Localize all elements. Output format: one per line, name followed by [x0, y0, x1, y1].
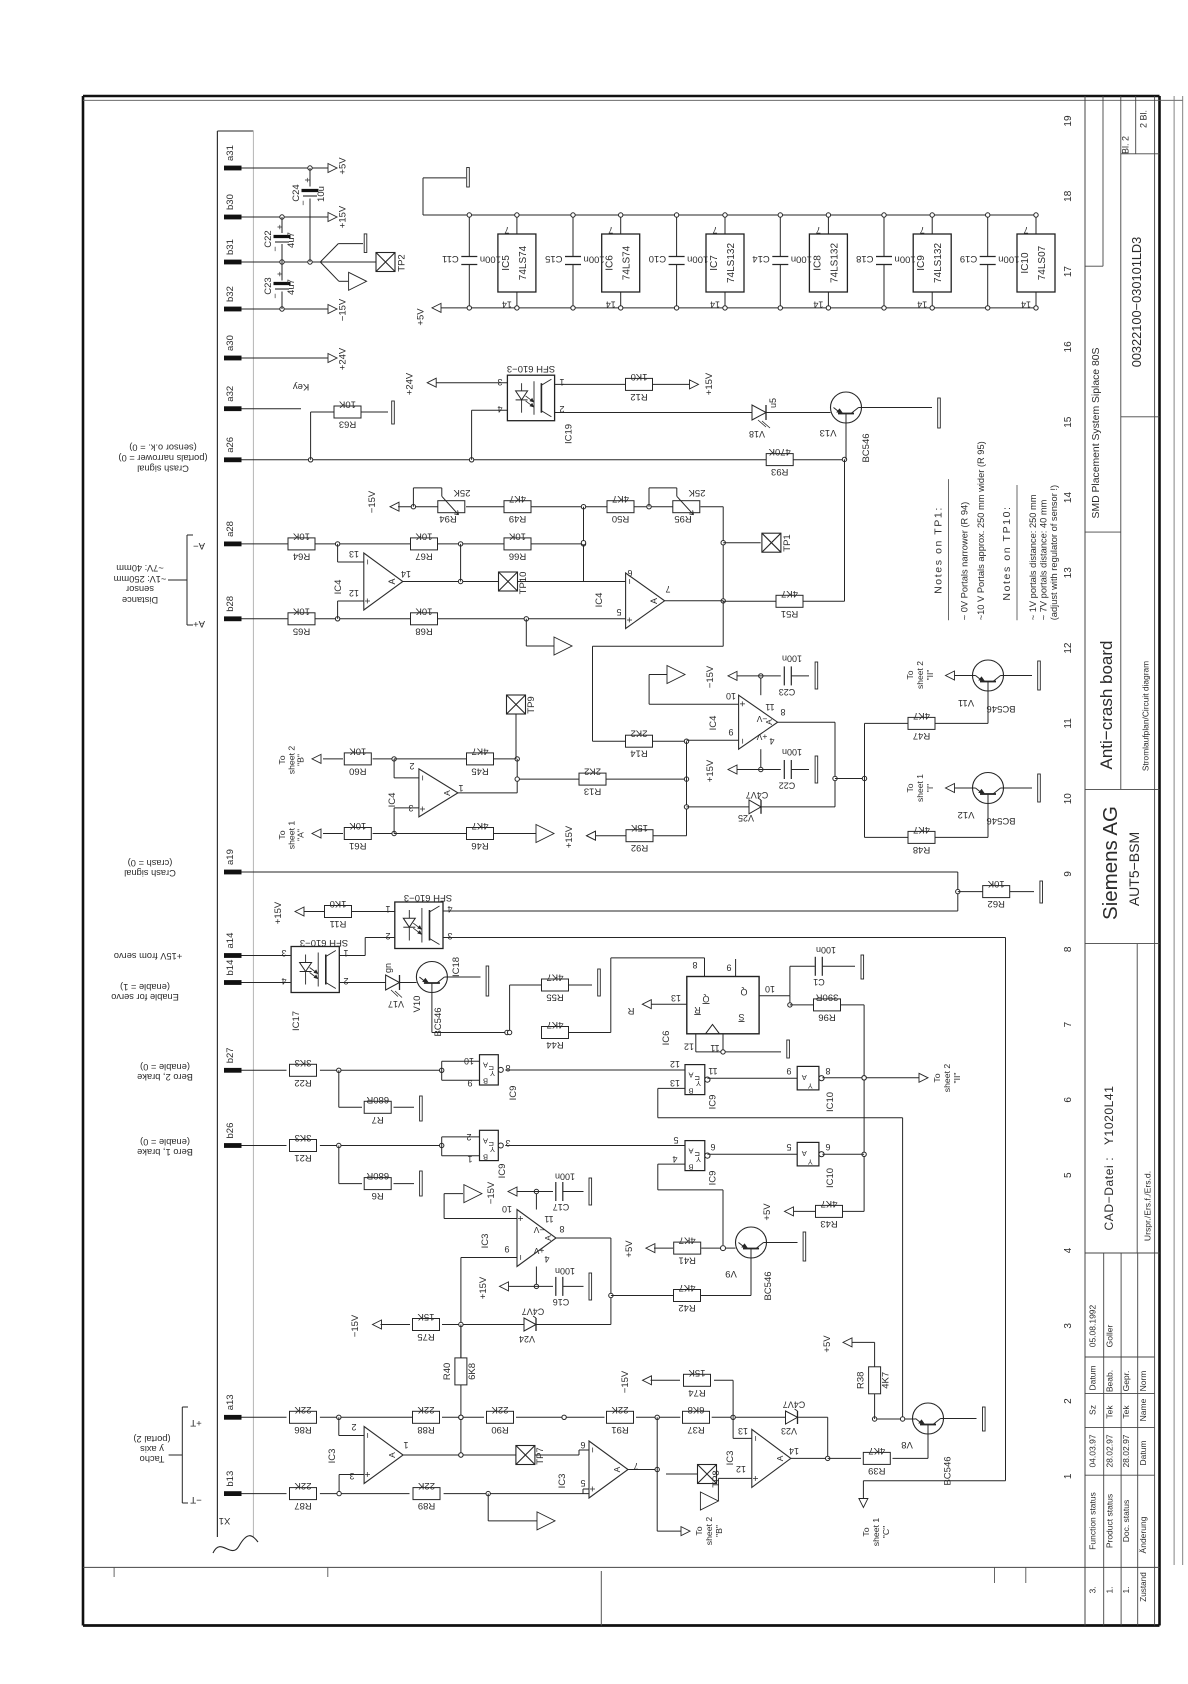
wire IC9a out	[707, 1077, 797, 1079]
svg-text:IC8: IC8	[812, 255, 823, 271]
svg-text:b28: b28	[225, 596, 236, 612]
rev row headers1	[1088, 1365, 1149, 1392]
wire IC9b out	[707, 1153, 797, 1155]
svg-text:+V: +V	[533, 1246, 544, 1256]
power arrow +5V R41	[646, 1244, 655, 1253]
svg-text:4u7: 4u7	[286, 279, 297, 295]
label 2 Bl.	[1139, 110, 1149, 128]
wire R7 branch	[339, 1070, 362, 1107]
svg-text:X1: X1	[219, 1515, 231, 1526]
svg-text:R47: R47	[913, 730, 930, 741]
svg-text:4K7: 4K7	[547, 972, 564, 983]
optocoupler IC17 SFH 610-3	[281, 937, 348, 1031]
svg-text:4K7: 4K7	[679, 1282, 696, 1293]
svg-text:2: 2	[409, 761, 414, 771]
wire R37 V23	[712, 1415, 786, 1419]
wire R86 R88	[320, 1415, 412, 1419]
capacitor C15 100n	[545, 213, 605, 310]
svg-text:B: B	[483, 1152, 488, 1161]
wire R60	[323, 758, 343, 760]
resistor R92 15K	[626, 822, 653, 853]
svg-text:6: 6	[825, 1142, 830, 1152]
op-amp IC3c	[480, 1204, 565, 1267]
svg-text:14: 14	[917, 300, 927, 310]
svg-text:1: 1	[385, 904, 390, 914]
power arrow +5V R38	[843, 1338, 852, 1347]
resistor R42 4K7	[674, 1282, 701, 1313]
svg-text:BC546: BC546	[861, 433, 872, 462]
terminal bar rail	[467, 168, 470, 188]
capacitor C17 100n	[553, 1172, 584, 1213]
svg-text:V8: V8	[901, 1439, 913, 1450]
svg-text:a13: a13	[225, 1394, 236, 1410]
label to sheet2 B	[277, 746, 306, 775]
svg-text:9: 9	[504, 1244, 509, 1254]
wire R12 +15V	[653, 383, 691, 385]
svg-text:10u: 10u	[316, 186, 327, 202]
svg-text:−: −	[418, 775, 429, 781]
svg-text:470K: 470K	[768, 446, 791, 457]
wire 0V fan	[320, 244, 376, 282]
svg-text:C14: C14	[752, 253, 769, 264]
svg-text:12: 12	[349, 588, 359, 598]
svg-text:To: To	[277, 830, 287, 839]
svg-text:R67: R67	[415, 550, 432, 561]
title Anti-crash board	[1097, 641, 1116, 770]
svg-text:Tacho: Tacho	[140, 1454, 165, 1464]
svg-text:1.: 1.	[1105, 1586, 1115, 1593]
svg-text:3.: 3.	[1088, 1586, 1098, 1593]
svg-text:+5V: +5V	[338, 157, 349, 175]
wire IC3b in+ jog	[583, 1489, 589, 1494]
wire R65 R68	[315, 617, 411, 621]
svg-text:+: +	[418, 806, 429, 812]
wire IC4c V+ supply	[736, 749, 781, 772]
wire R88 R90	[442, 1415, 484, 1419]
document number 00322100-030101LD3	[1129, 237, 1144, 368]
svg-text:6: 6	[580, 1440, 585, 1450]
svg-text:100n: 100n	[555, 1172, 575, 1182]
svg-text:~10 V Portals approx. 250 mm: ~10 V Portals approx. 250 mm wider (R 95…	[976, 441, 986, 620]
resistor R90 22K	[487, 1404, 514, 1435]
svg-text:~1V: 250mm: ~1V: 250mm	[113, 574, 166, 584]
svg-text:13: 13	[349, 549, 359, 559]
terminal bar FF pin11	[787, 1040, 790, 1058]
wire b30 +15V	[242, 215, 329, 219]
notes TP10 line2	[1039, 499, 1049, 620]
svg-text:−: −	[516, 1254, 527, 1260]
wire IC3c in+ 0V	[444, 1194, 517, 1219]
label -15V IC3c	[486, 1181, 497, 1204]
svg-text:100n: 100n	[782, 747, 802, 757]
label SMD Placement System Siplace 80S	[1091, 347, 1102, 518]
transistor V11 BC546	[958, 660, 1016, 714]
wire IC4a in-	[338, 544, 364, 562]
wire a13 row	[242, 1416, 287, 1418]
terminal bar V11	[1038, 661, 1041, 690]
label to sheet1 C	[861, 1518, 891, 1547]
resistor R12 1K0	[626, 371, 653, 402]
svg-text:sheet 2: sheet 2	[942, 1064, 952, 1093]
svg-text:14: 14	[1021, 300, 1031, 310]
op-amp IC4a	[333, 549, 411, 610]
svg-text:TP9: TP9	[526, 696, 537, 713]
svg-text:IC17: IC17	[291, 1011, 302, 1031]
wire R91 tap	[656, 1417, 658, 1469]
svg-text:4K7: 4K7	[913, 824, 930, 835]
zener V25 C4V7	[687, 790, 836, 823]
svg-text:+5V: +5V	[624, 1240, 635, 1258]
svg-text:V17: V17	[388, 999, 404, 1009]
op-amp IC4d	[387, 761, 464, 817]
svg-text:74LS07: 74LS07	[1037, 245, 1048, 280]
svg-text:IC6: IC6	[661, 1031, 672, 1046]
net arrow to sheet2 Bb	[681, 1527, 690, 1536]
wire a19 line	[242, 872, 961, 911]
0V arrow IC3c	[464, 1185, 482, 1203]
testpoint TP9	[507, 695, 538, 714]
svg-text:Norm: Norm	[1138, 1371, 1148, 1392]
power arrow -15V b32	[328, 305, 337, 314]
svg-text:IC9: IC9	[497, 1164, 508, 1179]
wire FF pin13 R	[649, 1003, 687, 1005]
svg-text:100n: 100n	[555, 1266, 575, 1276]
svg-text:A: A	[649, 598, 659, 604]
svg-text:15K: 15K	[688, 1367, 706, 1378]
svg-text:A: A	[442, 790, 452, 796]
resistor R61 10K	[344, 820, 371, 851]
svg-text:Doc. status: Doc. status	[1121, 1500, 1131, 1543]
wire IC3b out	[628, 1467, 659, 1471]
wire b28 A+ row	[242, 618, 289, 620]
svg-text:16: 16	[1063, 341, 1074, 353]
wire R14 junction	[593, 739, 689, 743]
svg-text:+5V: +5V	[416, 308, 427, 326]
svg-text:2: 2	[343, 976, 348, 986]
wire V10 emitter	[432, 993, 509, 1035]
resistor R43 4K7	[816, 1198, 843, 1229]
svg-text:Product status: Product status	[1105, 1494, 1115, 1548]
svg-text:28.02.97: 28.02.97	[1105, 1434, 1115, 1467]
resistor R63 10K	[334, 399, 361, 430]
wire to sheet1 C	[863, 1481, 1005, 1499]
svg-text:4: 4	[281, 976, 286, 986]
wire IC3d out	[791, 1456, 830, 1460]
transistor V10 BC546	[412, 962, 447, 1037]
svg-text:100n: 100n	[791, 254, 812, 265]
svg-text:IC6: IC6	[605, 255, 616, 271]
signal text tacho	[133, 1434, 170, 1464]
label -15V b32	[338, 298, 349, 321]
svg-text:+15V: +15V	[478, 1276, 489, 1299]
svg-text:4: 4	[1063, 1247, 1074, 1253]
svg-text:14: 14	[502, 300, 512, 310]
wire IC9b in4	[658, 1164, 723, 1245]
zone numbers 1-19	[1063, 115, 1074, 1479]
wire R91 R37	[636, 1415, 680, 1419]
wire IC3c in-	[461, 1258, 517, 1358]
svg-text:3: 3	[349, 1471, 354, 1481]
notes TP1 line1	[960, 502, 970, 621]
svg-text:sheet 2: sheet 2	[915, 661, 925, 689]
label +5V R38	[822, 1335, 833, 1353]
svg-text:"A": "A"	[296, 829, 306, 841]
svg-text:1: 1	[559, 377, 564, 387]
wire IC17 pin2 V17	[339, 982, 385, 984]
svg-text:10K: 10K	[349, 745, 367, 756]
wire R13	[517, 777, 689, 781]
svg-text:9: 9	[467, 1078, 472, 1088]
svg-text:R46: R46	[471, 840, 488, 851]
resistor R89 22K	[413, 1480, 440, 1511]
svg-text:+24V: +24V	[405, 372, 416, 395]
svg-text:10: 10	[765, 984, 775, 994]
svg-text:Y: Y	[808, 1157, 813, 1166]
label A+	[193, 618, 205, 629]
svg-text:C23: C23	[263, 277, 274, 294]
svg-text:18: 18	[1063, 190, 1074, 202]
svg-text:2: 2	[351, 1422, 356, 1432]
svg-text:IC3: IC3	[557, 1474, 568, 1489]
net arrow to sheet1 V12	[946, 784, 955, 793]
svg-text:+15V: +15V	[273, 901, 284, 924]
svg-text:A: A	[387, 578, 397, 584]
svg-text:b27: b27	[225, 1047, 236, 1063]
svg-text:+5V: +5V	[762, 1203, 773, 1221]
testpoint TP2	[376, 253, 395, 272]
wire R75 left	[381, 1324, 411, 1326]
svg-text:14: 14	[401, 569, 411, 579]
svg-text:a26: a26	[225, 437, 236, 453]
op-amp IC3b	[557, 1440, 639, 1498]
svg-text:R39: R39	[868, 1465, 885, 1476]
svg-text:11: 11	[544, 1214, 553, 1224]
svg-text:7: 7	[816, 225, 821, 235]
svg-text:R74: R74	[688, 1387, 705, 1398]
svg-text:TP10: TP10	[518, 572, 529, 595]
svg-text:A: A	[483, 1061, 488, 1070]
wire b13 row	[242, 1493, 287, 1495]
resistor R55 4K7	[542, 972, 569, 1003]
0V arrow R68	[554, 637, 572, 655]
trimmer R94 25K	[413, 487, 470, 524]
svg-text:Beab.: Beab.	[1105, 1370, 1115, 1392]
svg-text:2K2: 2K2	[631, 728, 648, 739]
resistor R86 22K	[290, 1404, 317, 1435]
svg-text:10K: 10K	[415, 605, 433, 616]
buffer IC10a	[786, 1066, 836, 1112]
label +5V rail	[416, 308, 427, 326]
wire a31 +5V	[242, 166, 329, 170]
svg-text:S: S	[738, 1012, 744, 1022]
svg-text:74LS132: 74LS132	[726, 243, 737, 283]
svg-text:22K: 22K	[611, 1404, 629, 1415]
svg-text:Crash signal: Crash signal	[137, 464, 189, 474]
wire V11V12 column	[864, 723, 866, 837]
svg-text:R86: R86	[294, 1424, 311, 1435]
label Stromlaufplan/Circuit diagram	[1141, 661, 1151, 771]
svg-text:4K7: 4K7	[781, 588, 798, 599]
svg-text:R51: R51	[781, 608, 798, 619]
svg-text:Y: Y	[490, 1145, 495, 1154]
wire R92	[594, 835, 687, 837]
resistor R21 3K3	[290, 1132, 317, 1163]
svg-text:R94: R94	[439, 513, 456, 524]
svg-text:390R: 390R	[816, 991, 839, 1002]
svg-text:A: A	[802, 1149, 807, 1158]
title block grid	[1085, 96, 1160, 1626]
terminal bar C22b	[815, 756, 818, 783]
wire R89 IC3b	[444, 1491, 589, 1495]
wire IC4d in-	[394, 759, 419, 778]
resistor R88 22K	[413, 1404, 440, 1435]
svg-text:R92: R92	[631, 842, 648, 853]
resistor R75 15K	[413, 1311, 440, 1342]
svg-text:1: 1	[1063, 1473, 1074, 1479]
svg-text:TP2: TP2	[397, 254, 408, 271]
wire IC3a out	[403, 1453, 516, 1457]
testpoint TP1	[762, 533, 793, 552]
power arrow -15V R74	[643, 1376, 652, 1385]
svg-text:8: 8	[692, 960, 697, 970]
svg-text:11: 11	[1063, 718, 1074, 729]
label +5V R41	[624, 1240, 635, 1258]
resistor R46 4K7	[467, 820, 494, 851]
wire a32 key	[242, 408, 302, 410]
svg-text:13: 13	[671, 993, 681, 1003]
wire V12 collector	[1001, 787, 1033, 789]
svg-text:"II": "II"	[925, 670, 935, 681]
svg-text:5: 5	[1063, 1172, 1074, 1178]
svg-text:y axis: y axis	[140, 1444, 164, 1454]
svg-text:Siemens AG: Siemens AG	[1099, 806, 1122, 920]
capacitor C11 100n	[442, 213, 501, 310]
svg-text:11: 11	[765, 702, 774, 712]
resistor R22 3K3	[290, 1057, 317, 1088]
wire R11 +15V	[303, 911, 325, 913]
label +15V IC4c	[705, 759, 716, 782]
svg-text:5: 5	[673, 1135, 678, 1145]
svg-text:C4V7: C4V7	[522, 1307, 545, 1317]
svg-text:R43: R43	[820, 1218, 837, 1229]
terminal bar R62	[1040, 881, 1043, 903]
svg-text:+: +	[363, 1471, 374, 1477]
svg-text:100n: 100n	[480, 254, 501, 265]
svg-text:Tek: Tek	[1105, 1405, 1115, 1419]
resistor R48 4K7	[908, 824, 935, 855]
svg-text:−: −	[751, 1435, 762, 1441]
svg-text:Stromlaufplan/Circuit diagram: Stromlaufplan/Circuit diagram	[1141, 661, 1151, 771]
label +T	[190, 1417, 202, 1428]
svg-text:R38: R38	[856, 1372, 867, 1389]
testpoint TP8	[698, 1465, 723, 1488]
svg-text:"B": "B"	[714, 1525, 724, 1537]
net arrow to sheet2 B	[312, 754, 321, 763]
svg-text:R89: R89	[418, 1500, 435, 1511]
svg-text:R87: R87	[294, 1500, 311, 1511]
IC rail bottom wire	[432, 307, 1036, 309]
0V arrow R46	[536, 825, 554, 843]
signal text enable for servo	[111, 982, 179, 1002]
wire IC19 pin4	[472, 410, 508, 460]
svg-text:R37: R37	[687, 1424, 704, 1435]
wire IC18 pin4 line	[443, 910, 958, 912]
wire R49 R50 junction	[531, 505, 607, 509]
svg-text:(sensor o.k. = 0): (sensor o.k. = 0)	[129, 443, 196, 453]
rev row zustand	[1088, 1572, 1149, 1602]
resistor R50 4K7	[607, 493, 634, 524]
0V arrow b13	[537, 1512, 555, 1530]
wire IC3d in-	[733, 1417, 752, 1438]
svg-text:V23: V23	[781, 1426, 797, 1436]
svg-text:Tek: Tek	[1121, 1405, 1131, 1419]
svg-text:R49: R49	[509, 513, 526, 524]
svg-text:−15V: −15V	[338, 298, 349, 321]
svg-text:4K7: 4K7	[868, 1445, 885, 1456]
svg-text:−: −	[270, 293, 280, 298]
svg-text:Q: Q	[702, 994, 709, 1004]
svg-text:100n: 100n	[895, 254, 916, 265]
signal bracket T	[169, 1407, 188, 1503]
svg-text:74LS132: 74LS132	[933, 243, 944, 283]
label +24V IC19	[405, 372, 416, 395]
notes TP1 header	[932, 479, 948, 620]
terminal bar V9	[803, 1232, 806, 1261]
svg-text:V24: V24	[519, 1334, 535, 1344]
wire R40 column	[459, 1325, 463, 1458]
svg-text:15K: 15K	[417, 1311, 435, 1322]
wire R55 branch	[507, 985, 541, 1035]
diode V17 gn LED	[383, 963, 404, 1009]
IC IC7 74LS132	[706, 213, 744, 310]
label CAD-Datei Y1020L41	[1102, 1086, 1116, 1231]
svg-text:04.03.97: 04.03.97	[1088, 1434, 1098, 1467]
svg-text:8: 8	[559, 1224, 564, 1234]
svg-text:10K: 10K	[338, 399, 356, 410]
svg-text:22K: 22K	[294, 1480, 312, 1491]
wire IC3a in-	[339, 1417, 364, 1435]
svg-text:+15V from servo: +15V from servo	[114, 951, 182, 961]
wire IC9c inputs	[442, 1061, 480, 1080]
svg-text:R91: R91	[611, 1424, 628, 1435]
svg-text:BC546: BC546	[763, 1271, 774, 1300]
resistor R65 10K	[288, 605, 315, 636]
wire R94 R49	[466, 506, 504, 508]
capacitor C14 100n	[752, 213, 812, 310]
wire R51	[723, 600, 844, 602]
label Urspr./Ers.f./Ers.d.	[1143, 1171, 1153, 1241]
svg-text:R55: R55	[546, 992, 563, 1003]
svg-text:1: 1	[343, 948, 348, 958]
svg-text:Sz: Sz	[1088, 1405, 1098, 1415]
svg-text:R60: R60	[349, 765, 366, 776]
wire R39	[828, 1434, 928, 1458]
label -15V IC4c	[705, 665, 716, 688]
op-amp IC4b	[594, 568, 671, 629]
wire R61 junction	[373, 831, 397, 835]
svg-text:IC9: IC9	[708, 1171, 719, 1186]
0V arrow IC3d	[700, 1492, 718, 1510]
svg-text:17: 17	[1063, 266, 1074, 278]
svg-text:+: +	[738, 701, 749, 707]
power arrow -15V R94	[390, 502, 399, 511]
svg-text:10K: 10K	[987, 878, 1005, 889]
svg-text:5: 5	[616, 607, 621, 617]
connector X1 break symbol	[213, 1536, 258, 1553]
wire a26 line	[242, 457, 847, 462]
wire R68 opamp	[438, 617, 626, 621]
zener V23 C4V7	[781, 1400, 805, 1437]
